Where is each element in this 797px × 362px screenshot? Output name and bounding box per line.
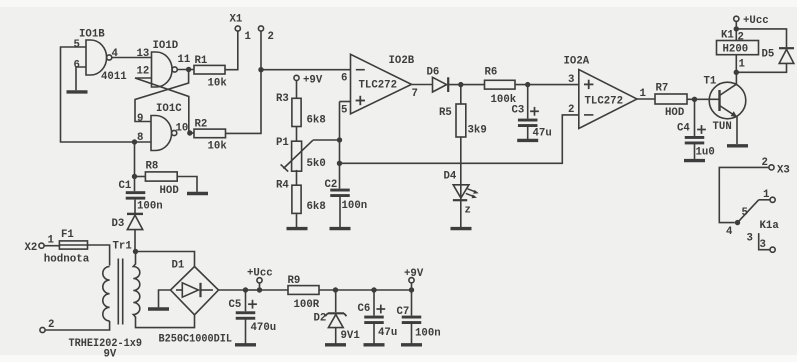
svg-text:HOD: HOD [665, 107, 684, 119]
diode D5 [762, 48, 795, 63]
wire bridge left corner to ground [159, 290, 171, 307]
svg-text:R5: R5 [439, 107, 452, 119]
svg-text:2: 2 [738, 32, 744, 44]
connector X3 pin 2 [762, 157, 790, 177]
wire C5 node to Ucc node [246, 289, 260, 291]
svg-text:H200: H200 [723, 44, 749, 56]
svg-text:K1a: K1a [760, 220, 780, 232]
svg-text:D2: D2 [314, 313, 327, 325]
svg-text:10k: 10k [208, 78, 228, 90]
wire latch feedback IO1C out to IO1D pin12 [135, 78, 189, 133]
svg-text:47u: 47u [378, 327, 397, 339]
wire D4 to ground [460, 137, 462, 227]
wire R8 node to R8 [135, 176, 146, 178]
svg-text:6k8: 6k8 [307, 115, 326, 127]
wire pin5 net vertical [339, 102, 341, 189]
svg-text:Tr1: Tr1 [113, 241, 132, 253]
wire Ucc node to D5 [736, 29, 786, 47]
svg-text:D6: D6 [427, 67, 440, 79]
wire F1 to Tr1 primary top [88, 245, 110, 266]
svg-text:6k8: 6k8 [307, 201, 326, 213]
connector X1 pin 2 [230, 14, 274, 44]
wire X1 node to R2 [226, 70, 262, 134]
wire R4 to ground [296, 213, 298, 227]
junction feedback node [337, 161, 342, 166]
connector X2 pin 2 [40, 319, 55, 333]
wire R9 to 9V rail [319, 289, 412, 291]
svg-text:R6: R6 [485, 67, 498, 79]
wire X3 pin2 to K1a pivot [719, 167, 769, 222]
svg-text:X1: X1 [230, 14, 243, 26]
svg-text:3k9: 3k9 [468, 125, 487, 137]
ground at T1 emitter [727, 144, 748, 147]
ground at C6 [364, 343, 385, 346]
ground at IO1B pin6 [67, 90, 88, 93]
junction K1 pin1 node [734, 70, 739, 75]
svg-text:D4: D4 [444, 171, 457, 183]
NAND gate IO1C [137, 103, 188, 151]
svg-text:C7: C7 [397, 306, 410, 318]
junction IO1C output node [187, 130, 192, 135]
diode D3 [112, 214, 144, 230]
svg-text:HOD: HOD [160, 185, 179, 197]
capacitor C5 470u [229, 290, 277, 344]
svg-text:hodnota: hodnota [44, 254, 90, 266]
svg-text:R3: R3 [276, 93, 289, 105]
svg-text:X3: X3 [777, 165, 790, 177]
ground at C4 [684, 159, 705, 162]
svg-text:B250C1000DIL: B250C1000DIL [159, 334, 233, 346]
connector K1a pin 1 [759, 189, 776, 202]
svg-text:1: 1 [48, 235, 54, 247]
svg-text:1: 1 [763, 189, 769, 201]
ground at R4 [287, 227, 308, 230]
power terminal +9V top [294, 75, 323, 99]
wire X2 pin1 to F1 [44, 245, 59, 247]
potentiometer P1 5k0 [276, 137, 326, 172]
svg-text:13: 13 [137, 48, 150, 60]
wire IO2A output to R7 [637, 98, 655, 100]
transformer Tr1 core [69, 241, 143, 361]
capacitor C2 100n [325, 179, 368, 227]
wire R3 to P1 [296, 127, 298, 142]
capacitor C7 100n [397, 290, 441, 344]
svg-text:IO2B: IO2B [389, 55, 415, 67]
connector X2 pin 1 [25, 235, 54, 255]
svg-text:P1: P1 [276, 137, 289, 149]
junction Ucc relay node [734, 26, 739, 31]
wire T1 collector up [735, 72, 737, 84]
resistor R5 3k9 [439, 85, 487, 137]
svg-text:IO1C: IO1C [156, 103, 182, 115]
zener diode D2 9V1 [314, 290, 360, 344]
svg-text:1: 1 [739, 59, 745, 71]
wire bridge right corner to supply rail [219, 289, 246, 291]
svg-text:5: 5 [742, 207, 748, 219]
svg-text:R1: R1 [195, 55, 208, 67]
svg-text:R2: R2 [195, 119, 208, 131]
LED D4 [444, 171, 479, 217]
wire R6 to IO2A pin3 [515, 84, 579, 86]
svg-text:5: 5 [341, 105, 347, 117]
resistor R7 HOD [655, 83, 687, 120]
junction +Ucc node [257, 287, 262, 292]
NAND gate IO1D [137, 40, 191, 87]
wire IO1B output 4 to IO1D pin13 [112, 57, 152, 59]
diode D6 [427, 67, 449, 93]
svg-text:3: 3 [568, 74, 574, 86]
wire IO1D output 11 to node [177, 69, 194, 71]
svg-text:11: 11 [178, 54, 191, 66]
svg-text:D1: D1 [172, 260, 185, 272]
svg-text:+9V: +9V [303, 75, 323, 87]
wire X2 pin2 to Tr1 primary bottom [45, 321, 110, 330]
wire IO1C output 10 to R2 [190, 132, 194, 134]
wire IO2A pin2 to feedback net [340, 115, 579, 163]
svg-text:7: 7 [412, 88, 418, 100]
ground at bridge [148, 307, 169, 310]
svg-text:4: 4 [726, 226, 733, 238]
svg-text:100n: 100n [137, 201, 163, 213]
svg-text:C6: C6 [358, 303, 371, 315]
svg-text:8: 8 [137, 132, 143, 144]
resistor R6 100k [485, 67, 517, 107]
svg-text:2: 2 [268, 31, 274, 43]
svg-text:X2: X2 [25, 242, 38, 254]
svg-text:F1: F1 [61, 229, 74, 241]
ground at C2 [330, 227, 351, 230]
junction R8 node [132, 174, 137, 179]
resistor R2 10k [194, 119, 227, 153]
fuse F1 hodnota [44, 229, 90, 266]
svg-text:9V1: 9V1 [341, 330, 360, 342]
ground at C7 [401, 343, 422, 346]
junction K1a pivot [735, 220, 740, 225]
wire IO1B pin5 to IO1C pin8 net [61, 47, 152, 142]
wire D3 to Tr1 secondary node [134, 230, 136, 252]
resistor R8 HOD [145, 161, 178, 198]
svg-text:IO2A: IO2A [564, 56, 590, 68]
wire Tr1 secondary top to node [135, 252, 137, 265]
relay coil K1 H200 [717, 29, 759, 72]
svg-text:D3: D3 [112, 218, 125, 230]
svg-text:+Ucc: +Ucc [743, 15, 769, 27]
ground at D2 [325, 343, 346, 346]
svg-text:100R: 100R [294, 299, 320, 311]
svg-text:C3: C3 [512, 105, 525, 117]
wire latch feedback IO1D out to IO1C pin9 [135, 70, 189, 122]
relay contact K1a [726, 200, 779, 238]
svg-text:T1: T1 [704, 76, 717, 88]
junction R5 node [458, 82, 463, 87]
wire T1 emitter to ground [736, 117, 738, 144]
transformer Tr1 secondary winding [133, 264, 140, 317]
capacitor C3 47u [512, 85, 552, 140]
transformer Tr1 primary winding [103, 267, 110, 321]
wire K1a pin 3 [759, 233, 770, 250]
svg-text:12: 12 [137, 66, 150, 78]
junction D2 node [333, 287, 338, 292]
svg-text:3: 3 [760, 239, 766, 251]
connector K1a pin 3 [747, 233, 776, 253]
wire IO1B pin6 stub [76, 67, 86, 90]
svg-text:K1: K1 [721, 30, 734, 42]
junction C3 node [525, 82, 530, 87]
wire Tr1 secondary bottom to bridge bottom [136, 315, 195, 328]
svg-text:9: 9 [137, 113, 143, 125]
svg-text:TLC272: TLC272 [585, 96, 623, 108]
svg-text:R9: R9 [288, 275, 301, 287]
op-amp IO2B TLC272 [341, 54, 418, 116]
svg-text:470u: 470u [251, 322, 277, 334]
svg-text:100n: 100n [415, 328, 441, 340]
svg-text:R4: R4 [276, 180, 289, 192]
svg-text:C2: C2 [325, 179, 338, 191]
svg-text:47u: 47u [533, 128, 552, 140]
resistor R4 6k8 [276, 180, 326, 214]
wire X1 node to IO2B pin6 [261, 69, 351, 71]
wire C1 to D3 [134, 200, 136, 214]
svg-text:10: 10 [176, 123, 189, 135]
ground at R8 [187, 192, 208, 195]
wire Ucc node to R9 [260, 289, 289, 291]
svg-text:IO1B: IO1B [79, 29, 105, 41]
connector X1 pin 1 [235, 26, 251, 43]
wire IO2B output to D6 [412, 84, 433, 86]
wire P1 to R4 [296, 170, 298, 185]
svg-text:6: 6 [341, 73, 347, 85]
svg-text:z: z [465, 205, 471, 217]
resistor R1 10k [194, 55, 227, 90]
power terminal +9V bottom [404, 268, 424, 290]
junction C5 node [243, 287, 248, 292]
ground at C5 [235, 343, 256, 346]
power terminal +Ucc bottom [247, 268, 273, 291]
svg-text:R8: R8 [146, 161, 159, 173]
svg-text:C5: C5 [229, 299, 242, 311]
junction IO1D output node [186, 67, 191, 72]
wire P1 wiper to pin5 net [313, 139, 340, 141]
capacitor C1 100n [119, 180, 163, 213]
wire R8 node to C1 [134, 177, 136, 192]
wire R1 to X1 pin1 [225, 31, 238, 70]
svg-text:TUN: TUN [713, 121, 732, 133]
wire IO1C pin8 node down to R8 node [134, 142, 136, 177]
svg-text:100n: 100n [342, 200, 368, 212]
capacitor C6 47u [358, 290, 398, 344]
wire X1 pin2 down [260, 31, 262, 70]
junction Tr1 secondary top node [133, 249, 138, 254]
svg-text:1: 1 [245, 31, 251, 43]
svg-text:+9V: +9V [404, 268, 424, 280]
junction C6 node [371, 287, 376, 292]
svg-text:C1: C1 [119, 180, 132, 192]
bridge rectifier D1 B250C1000DIL [159, 260, 233, 346]
resistor R9 100R [288, 275, 320, 311]
junction C4 node [692, 97, 697, 102]
junction P1 wiper node [337, 137, 342, 142]
junction IO1C pin8 node [132, 139, 137, 144]
svg-text:C4: C4 [677, 123, 690, 135]
svg-text:IO1D: IO1D [153, 40, 179, 52]
wire D6 to R5 node [448, 84, 484, 86]
NAND gate IO1B (4011) [74, 29, 127, 84]
svg-text:TLC272: TLC272 [359, 80, 397, 92]
svg-text:4011: 4011 [101, 71, 127, 83]
wire node to bridge top [136, 252, 195, 267]
svg-text:5: 5 [74, 39, 80, 51]
wire D5 to K1 pin1 node [736, 63, 786, 72]
op-amp IO2A TLC272 [564, 56, 646, 129]
transistor T1 TUN [704, 76, 746, 134]
wire R7 to T1 base [687, 98, 720, 100]
svg-text:10k: 10k [208, 141, 228, 153]
ground at C3 [517, 139, 538, 142]
svg-text:3: 3 [747, 233, 753, 245]
svg-text:+Ucc: +Ucc [247, 268, 273, 280]
junction +9V node [409, 287, 414, 292]
svg-text:1u0: 1u0 [696, 147, 715, 159]
power terminal +Ucc top [734, 15, 769, 29]
wire R8 to ground [177, 177, 197, 192]
wire IO2B pin5 stub [340, 101, 351, 103]
svg-text:9V: 9V [104, 349, 117, 361]
svg-text:D5: D5 [762, 49, 775, 61]
svg-text:5k0: 5k0 [307, 158, 326, 170]
junction X1 pin2 node [258, 67, 263, 72]
svg-text:R7: R7 [656, 83, 669, 95]
ground at D4 [451, 227, 472, 230]
capacitor C4 1u0 [677, 99, 715, 159]
resistor R3 6k8 [276, 93, 326, 127]
